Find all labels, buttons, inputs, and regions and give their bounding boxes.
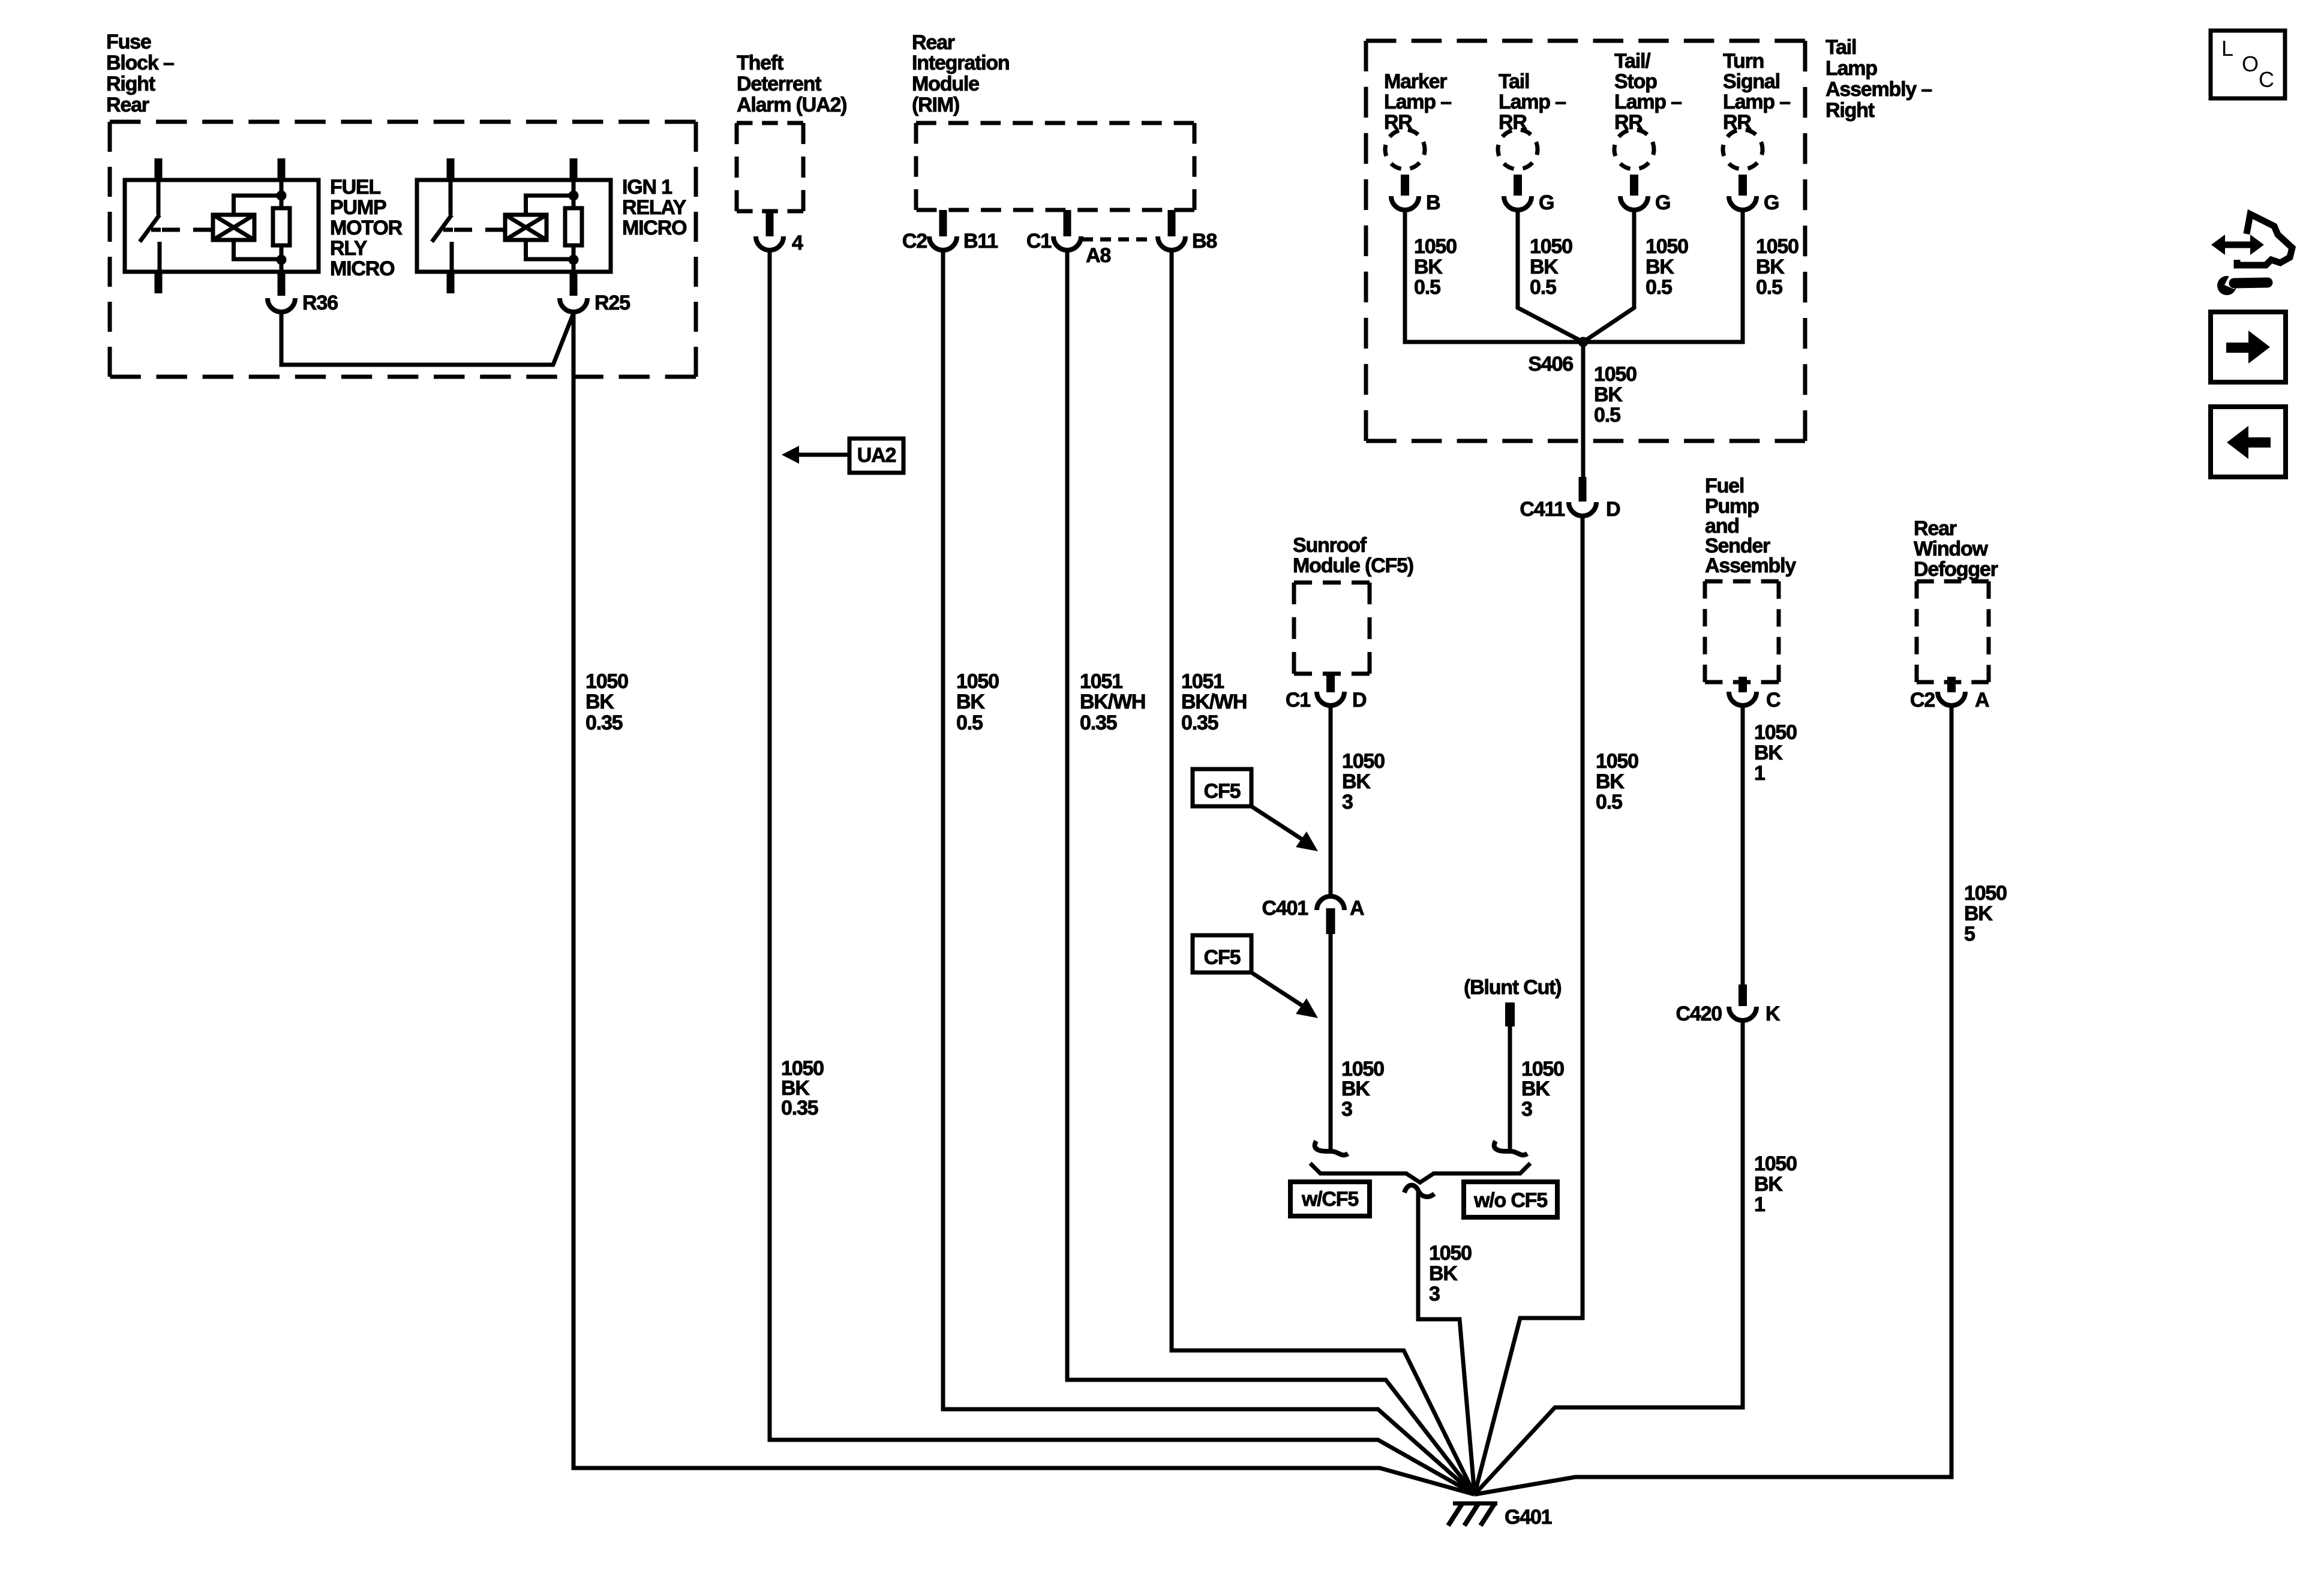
svg-text:G401: G401 [1505,1506,1552,1529]
svg-text:Deterrent: Deterrent [737,73,821,95]
svg-text:4: 4 [792,232,803,254]
svg-text:S406: S406 [1528,353,1573,376]
svg-text:3: 3 [1521,1098,1532,1121]
svg-text:Lamp –: Lamp – [1614,91,1682,113]
tail lamp assembly dashed box [1366,39,1805,43]
svg-text:1050: 1050 [1756,235,1798,258]
connector C401 A [1317,896,1344,910]
svg-text:CF5: CF5 [1204,946,1241,969]
svg-text:RLY: RLY [330,237,368,260]
svg-text:D: D [1352,689,1367,712]
relay R25 IGN 1 RELAY MICRO [417,180,611,272]
svg-text:Window: Window [1914,538,1989,560]
svg-text:C2: C2 [1910,689,1935,712]
CF5 arrow 2 [1251,972,1303,1006]
svg-text:0.35: 0.35 [585,712,623,734]
svg-text:0.35: 0.35 [1080,712,1117,734]
svg-text:Lamp –: Lamp – [1384,91,1451,113]
connector G (tail/stop) [1620,196,1648,210]
svg-text:0.5: 0.5 [1756,276,1782,299]
wire C420 to ground run [1475,1022,1743,1494]
svg-text:C401: C401 [1262,897,1308,920]
svg-text:Tail: Tail [1499,70,1529,93]
connector B (marker) [1391,196,1419,210]
option split curl [1404,1185,1434,1196]
svg-text:G: G [1539,191,1554,214]
svg-text:BK: BK [1414,256,1443,278]
svg-text:Tail/: Tail/ [1614,50,1651,73]
svg-text:G: G [1764,191,1779,214]
svg-text:C: C [2259,67,2274,92]
svg-text:3: 3 [1342,791,1353,813]
svg-text:0.5: 0.5 [1594,404,1620,427]
RIM pin C2-B11 stub [939,210,947,236]
svg-text:1050: 1050 [1429,1242,1472,1265]
svg-text:1051: 1051 [1181,670,1224,693]
svg-text:R25: R25 [594,292,630,314]
svg-text:3: 3 [1341,1098,1352,1121]
theft deterrent dashed box [737,121,803,125]
UA2 reference arrow [782,446,799,464]
connector C (fuel pump) [1729,692,1756,706]
svg-text:0.5: 0.5 [1414,276,1440,299]
svg-text:G: G [1655,191,1670,214]
svg-text:UA2: UA2 [857,444,896,467]
svg-text:1: 1 [1754,1193,1765,1216]
connector G (turn signal) [1729,196,1756,210]
svg-text:BK: BK [1646,256,1674,278]
svg-text:Block –: Block – [106,52,174,74]
lamp tail/stop pin stub [1630,175,1638,196]
svg-text:w/CF5: w/CF5 [1301,1188,1358,1211]
svg-text:0.5: 0.5 [1530,276,1556,299]
connector C2 B11 [929,236,957,250]
lamp marker bulb circle [1380,125,1430,174]
svg-text:IGN 1: IGN 1 [622,176,672,199]
sunroof pin stub [1326,672,1335,692]
svg-text:1050: 1050 [1754,1152,1797,1175]
pin 4 stub [766,211,774,236]
RIM pin B8 stub [1168,210,1176,236]
svg-text:1050: 1050 [1964,882,2007,905]
UA2 reference box [849,439,903,473]
svg-text:0.35: 0.35 [1181,712,1218,734]
wire end foot (w/CF5 side) [1315,1141,1348,1155]
svg-text:Right: Right [1825,99,1875,122]
wire defogger to ground run [1475,707,1951,1494]
connector pin 4 [756,236,783,250]
svg-text:BK: BK [1596,770,1625,793]
wire fuel pump to C420 [1741,707,1745,984]
RIM connector dashed link [1082,238,1154,242]
svg-text:BK: BK [1341,1077,1370,1100]
defogger pin stub [1947,677,1956,692]
svg-text:1: 1 [1754,762,1765,785]
svg-text:Rear: Rear [106,94,149,116]
connector C411 D [1569,502,1596,516]
svg-text:0.5: 0.5 [1596,791,1622,813]
sunroof module dashed box [1294,581,1370,585]
RIM pin C1-A8 stub [1064,210,1071,236]
svg-text:1050: 1050 [585,670,628,693]
splice S406 [1578,337,1589,347]
wire tail lamp to S406 [1518,211,1583,342]
svg-text:BK: BK [1754,742,1783,764]
svg-text:CF5: CF5 [1204,780,1241,803]
svg-text:Fuel: Fuel [1705,475,1744,497]
wire end foot (w/o CF5 side) [1494,1141,1527,1155]
w/CF5 option box [1290,1182,1370,1216]
svg-text:K: K [1765,1002,1780,1025]
connector C1 A8 [1053,236,1081,250]
svg-text:1050: 1050 [1414,235,1457,258]
fuel pump dashed box [1705,580,1779,584]
svg-text:Sunroof: Sunroof [1293,534,1367,557]
svg-text:Module (CF5): Module (CF5) [1293,554,1413,577]
svg-text:1051: 1051 [1080,670,1122,693]
wire marker lamp to S406 [1405,211,1580,342]
svg-text:FUEL: FUEL [330,176,380,199]
svg-text:Tail: Tail [1825,36,1856,59]
svg-text:MOTOR: MOTOR [330,217,403,239]
svg-text:0.5: 0.5 [956,712,983,734]
svg-text:C1: C1 [1026,230,1051,253]
CF5 arrow 1 [1251,806,1303,840]
svg-text:1050: 1050 [1646,235,1688,258]
wire option split to ground [1418,1190,1475,1494]
svg-text:Assembly: Assembly [1705,554,1796,577]
svg-text:1050: 1050 [1594,363,1637,386]
wire R36 to R25 junction [281,312,574,365]
svg-text:0.35: 0.35 [781,1097,818,1119]
svg-text:(RIM): (RIM) [912,94,959,116]
svg-text:BK: BK [1521,1077,1550,1100]
connector R36 [268,298,295,312]
CF5 callout box 1 [1193,769,1251,806]
svg-text:L: L [2221,36,2233,61]
svg-text:Alarm (UA2): Alarm (UA2) [737,94,846,116]
svg-text:R36: R36 [302,292,338,314]
svg-text:1050: 1050 [956,670,999,693]
svg-text:BK: BK [1754,1173,1783,1196]
svg-text:(Blunt Cut): (Blunt Cut) [1464,976,1561,999]
svg-text:Rear: Rear [912,31,955,54]
svg-text:Integration: Integration [912,52,1009,74]
svg-text:Stop: Stop [1614,70,1657,93]
svg-text:B11: B11 [963,230,998,253]
svg-text:1050: 1050 [1530,235,1572,258]
wire tail/stop lamp to S406 [1583,211,1634,342]
svg-text:PUMP: PUMP [330,196,386,219]
relay R36 FUEL PUMP MOTOR RLY MICRO [125,180,319,272]
svg-text:Right: Right [106,73,155,95]
connector G (tail) [1504,196,1532,210]
connector R25 [560,298,587,312]
svg-text:RELAY: RELAY [622,196,687,219]
wire sunroof to C401 [1329,707,1333,896]
svg-text:Theft: Theft [737,52,783,74]
svg-text:Assembly –: Assembly – [1825,78,1932,101]
svg-text:Lamp –: Lamp – [1723,91,1790,113]
svg-text:A8: A8 [1086,244,1110,267]
connector B8 [1158,236,1185,250]
service/repair icon [2220,242,2256,248]
RIM dashed box [916,121,1194,125]
back arrow box [2211,407,2286,477]
w/o CF5 option box [1464,1182,1557,1217]
svg-text:B8: B8 [1192,230,1217,253]
option brace [1310,1163,1530,1182]
svg-text:BK: BK [956,691,985,713]
LOC reference box [2211,31,2285,98]
svg-text:MICRO: MICRO [330,257,395,280]
svg-text:MICRO: MICRO [622,217,687,239]
wire C401 to option split [1329,934,1333,1149]
svg-text:BK: BK [1530,256,1559,278]
ground G401 [1453,1502,1497,1506]
svg-text:BK/WH: BK/WH [1080,691,1145,713]
svg-text:1050: 1050 [1754,721,1797,744]
svg-text:C2: C2 [902,230,927,253]
lamp turn signal pin stub [1739,175,1747,196]
svg-text:C1: C1 [1286,689,1310,712]
svg-text:BK: BK [1429,1262,1458,1285]
svg-text:BK/WH: BK/WH [1181,691,1247,713]
svg-text:Rear: Rear [1914,517,1957,540]
blunt cut pin stub [1505,1002,1515,1026]
connector C2 A (defogger) [1938,692,1965,706]
svg-text:BK: BK [1594,383,1623,406]
svg-text:Marker: Marker [1384,70,1447,93]
connector C1 D (sunroof) [1317,692,1344,706]
forward arrow box [2211,312,2286,382]
wire turn signal lamp to S406 [1586,211,1743,342]
rear defogger dashed box [1917,580,1989,584]
svg-text:Defogger: Defogger [1914,558,1998,581]
svg-text:1050: 1050 [1342,750,1385,773]
svg-text:C: C [1766,689,1780,712]
svg-text:Fuse: Fuse [106,31,151,53]
connector C420 pin stub [1739,984,1747,1006]
svg-text:5: 5 [1964,923,1975,945]
lamp tail pin stub [1514,175,1522,196]
svg-text:w/o CF5: w/o CF5 [1473,1189,1547,1212]
wire B8 to ground run [1172,252,1475,1494]
wire C411 to ground run [1475,517,1583,1494]
svg-text:BK: BK [1342,770,1371,793]
svg-text:0.5: 0.5 [1646,276,1672,299]
svg-text:Module: Module [912,73,979,95]
svg-text:Lamp –: Lamp – [1499,91,1566,113]
svg-text:Signal: Signal [1723,70,1780,93]
lamp marker pin stub [1401,175,1409,196]
connector C411 pin stub [1579,477,1587,502]
fuse block dashed box [110,120,696,124]
wire S406 to C411 [1581,342,1586,478]
lamp turn signal bulb circle [1718,125,1767,174]
svg-text:O: O [2242,52,2259,76]
svg-text:BK: BK [585,691,614,713]
lamp tail bulb circle [1493,125,1542,174]
svg-text:C420: C420 [1676,1002,1722,1025]
svg-text:A: A [1975,689,1989,712]
wire A8 to ground run [1067,252,1475,1494]
svg-text:BK: BK [1756,256,1785,278]
svg-text:B: B [1426,191,1440,214]
wire R25 to ground run [574,312,1475,1494]
lamp tail/stop bulb circle [1610,125,1659,174]
svg-text:Turn: Turn [1723,50,1764,73]
svg-text:D: D [1606,498,1620,521]
wire pin4 to ground run [770,252,1475,1494]
wire blunt cut [1508,1026,1512,1149]
svg-text:A: A [1350,897,1364,920]
CF5 callout box 2 [1193,935,1251,972]
svg-text:Lamp: Lamp [1825,57,1877,80]
connector C420 K [1729,1007,1756,1020]
svg-text:3: 3 [1429,1283,1440,1305]
fuel pump pin stub [1739,677,1747,692]
wire B11 to ground run [943,252,1475,1494]
svg-text:C411: C411 [1520,498,1565,521]
svg-text:1050: 1050 [1596,750,1638,773]
svg-text:BK: BK [1964,902,1993,925]
